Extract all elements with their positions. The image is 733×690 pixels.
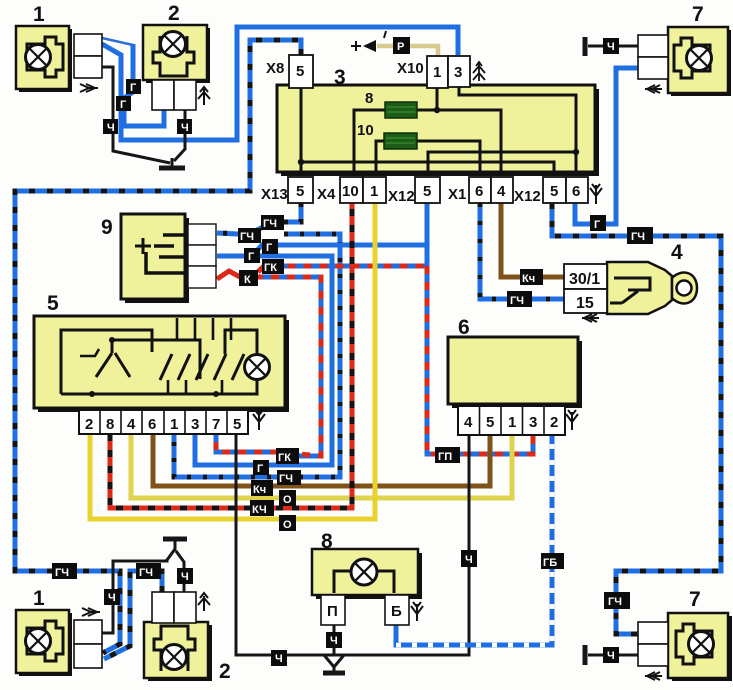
pin row of switch 6 bbox=[458, 406, 565, 435]
svg-text:3: 3 bbox=[529, 414, 537, 431]
pin X8-5 bbox=[289, 55, 313, 88]
tag GP at stalk6 pin3 bbox=[435, 447, 460, 463]
tag Ch on lamp2 ground wire bbox=[177, 119, 192, 134]
svg-text:6: 6 bbox=[458, 316, 470, 339]
wire red-black KC switch5 pin8 to X4-10 bbox=[110, 203, 352, 508]
resistor 8 bbox=[385, 102, 417, 118]
tag G on lamp2 branch bbox=[116, 96, 131, 111]
lamp 2 top: side repeater lamp bbox=[143, 25, 210, 110]
wire GK dashed upper branch to GP riser bbox=[258, 266, 427, 272]
wire black ground G2 to lamp1b bbox=[102, 559, 167, 633]
svg-text:ГЧ: ГЧ bbox=[139, 567, 153, 579]
svg-text:Ч: Ч bbox=[607, 650, 615, 662]
tag Ch lamp2b ground bbox=[177, 568, 193, 584]
tag Ch on stalk6 pin4 wire bbox=[461, 550, 477, 567]
svg-text:X10: X10 bbox=[397, 60, 424, 77]
wire GC dashed X13-5 to flasher9 top pin bbox=[217, 203, 301, 234]
svg-text:Б: Б bbox=[391, 603, 402, 620]
tag O upper at switch5 pin4 bbox=[279, 490, 296, 506]
wire GC dashed X1-6 to ignition4 pin15 bbox=[480, 203, 564, 299]
ground G2 bbox=[163, 539, 187, 560]
svg-text:7: 7 bbox=[212, 416, 220, 433]
tag G 1 near flasher9 bbox=[244, 248, 260, 263]
svg-text:5: 5 bbox=[47, 292, 59, 315]
plus and arrow near P tag bbox=[351, 31, 386, 52]
svg-text:3: 3 bbox=[334, 66, 346, 89]
svg-text:5: 5 bbox=[296, 63, 304, 80]
tag GCh 2 near flasher9 bbox=[261, 215, 284, 230]
svg-text:П: П bbox=[327, 603, 338, 620]
tag Ch on ground bus bbox=[271, 650, 287, 666]
psi symbol at lamp8 bbox=[411, 602, 423, 621]
wire blue G X12-5a to flasher9 middle pin bbox=[217, 203, 427, 256]
svg-text:О: О bbox=[283, 519, 292, 531]
svg-text:Ч: Ч bbox=[275, 653, 283, 665]
wire black lamp1 to ground G1 bbox=[102, 67, 170, 163]
wire blue G switch5 pin3 riser bbox=[195, 256, 332, 465]
svg-text:4: 4 bbox=[671, 241, 683, 264]
tag KCh brown at switch5 pin6 bbox=[251, 480, 273, 496]
svg-text:3: 3 bbox=[454, 64, 462, 81]
svg-text:Р: Р bbox=[397, 41, 404, 53]
hazard switch 5 bbox=[34, 316, 289, 412]
wire black switch5 pin5 to ground bus bbox=[236, 434, 272, 655]
svg-text:Г: Г bbox=[266, 242, 273, 254]
wire GC dashed branch to switch5 pin1 bbox=[174, 234, 340, 477]
ground G5 bbox=[583, 645, 588, 665]
svg-text:2: 2 bbox=[550, 414, 558, 431]
turn-signal stalk switch 6 bbox=[448, 337, 582, 408]
svg-text:Г: Г bbox=[130, 82, 137, 94]
svg-text:9: 9 bbox=[101, 216, 113, 239]
resistor 10 bbox=[384, 133, 417, 149]
chevrons below lamp7 bottom bbox=[645, 672, 662, 680]
wire tan from P tag to X10-1 bbox=[377, 46, 438, 55]
tag KC at switch5 pin8 bbox=[250, 500, 274, 516]
svg-text:4: 4 bbox=[464, 414, 473, 431]
tag Ch lamp1b ground bbox=[104, 589, 120, 605]
svg-text:Г: Г bbox=[248, 251, 255, 263]
psi symbol at switch5 pins bbox=[253, 410, 265, 430]
wire black ground G4 to lamp7 top bbox=[588, 45, 638, 48]
tag Ch on lamp1 ground wire bbox=[103, 119, 118, 134]
svg-text:1: 1 bbox=[370, 183, 378, 200]
tag G at switch5 pin3 bbox=[253, 460, 269, 475]
fir symbol right of X10-3 bbox=[473, 62, 485, 81]
tag GCh 1 near flasher9 bbox=[238, 228, 261, 243]
svg-text:6: 6 bbox=[572, 183, 580, 200]
svg-text:Г: Г bbox=[594, 219, 601, 231]
chevrons near lamp7 top bbox=[645, 85, 662, 93]
svg-text:7: 7 bbox=[689, 588, 701, 611]
svg-text:Ч: Ч bbox=[108, 592, 116, 604]
svg-text:Г: Г bbox=[120, 99, 127, 111]
svg-text:ГЧ: ГЧ bbox=[631, 231, 645, 243]
svg-text:2: 2 bbox=[85, 416, 93, 433]
wire black ground bus to lamp8 and stalk6 pin4 bbox=[286, 435, 469, 655]
svg-text:ГЧ: ГЧ bbox=[279, 473, 293, 485]
tag GCh at ignition 15 bbox=[507, 291, 532, 307]
tag GCh bottom-left edge bbox=[52, 563, 77, 579]
lamp 7 bottom-right bbox=[638, 613, 732, 681]
lamp 1 bottom-left bbox=[16, 610, 102, 676]
tag GB on lamp8 B wire bbox=[541, 553, 564, 569]
tag G on lamp1 wire bbox=[126, 79, 141, 94]
wire black lamp8 P pin to ground G3 bbox=[333, 625, 336, 655]
svg-text:X8: X8 bbox=[266, 60, 284, 77]
svg-text:К: К bbox=[244, 274, 251, 286]
lamp 2 bottom bbox=[144, 592, 212, 681]
svg-text:8: 8 bbox=[365, 90, 373, 107]
wire black ground G5 to lamp7b bbox=[588, 654, 638, 657]
wire GC dashed lamp2b to lamp1b bbox=[104, 571, 162, 659]
svg-text:5: 5 bbox=[423, 183, 431, 200]
tag GK at switch5 pin7 bbox=[276, 448, 299, 464]
ignition switch 4 bbox=[564, 262, 697, 314]
svg-text:4: 4 bbox=[497, 183, 506, 200]
svg-text:ГЧ: ГЧ bbox=[55, 567, 69, 579]
tag Ch top-right lamp7 bbox=[603, 38, 619, 54]
svg-text:5: 5 bbox=[296, 183, 304, 200]
svg-text:10: 10 bbox=[342, 183, 359, 200]
svg-text:1: 1 bbox=[33, 3, 45, 26]
tag Ch below lamp8 P bbox=[326, 632, 342, 648]
wire GC dashed left loop: X8-5 down left edge to bottom-left lamps bbox=[15, 40, 301, 653]
svg-text:Ч: Ч bbox=[330, 635, 338, 647]
wire GC dashed X12-5b right edge loop to lamp7b bbox=[552, 203, 721, 634]
psi symbol at stalk6 pins bbox=[566, 410, 578, 430]
svg-text:8: 8 bbox=[321, 530, 333, 553]
chevrons below ignition 4 bbox=[582, 314, 599, 322]
svg-text:2: 2 bbox=[168, 2, 180, 25]
svg-text:6: 6 bbox=[148, 416, 156, 433]
svg-text:7: 7 bbox=[692, 3, 704, 26]
psi symbol at block3 pins bbox=[590, 184, 602, 204]
svg-text:ГК: ГК bbox=[278, 452, 291, 464]
tag GCh lamp7b wire bbox=[604, 592, 630, 609]
svg-text:5: 5 bbox=[486, 414, 494, 431]
svg-text:2: 2 bbox=[219, 660, 231, 683]
wire black lamp2 to ground G1 bbox=[174, 110, 185, 161]
ground G3 bbox=[323, 655, 345, 673]
bottom pin row of block 3 bbox=[288, 177, 588, 203]
svg-text:Ч: Ч bbox=[607, 41, 615, 53]
wire GP dashed riser to stalk6 pin3 bbox=[427, 245, 533, 454]
svg-text:1: 1 bbox=[33, 587, 45, 610]
svg-text:Г: Г bbox=[257, 463, 264, 475]
tag G near X12-6 bbox=[590, 215, 606, 231]
wire blue branch lamp1 to lamp2 bbox=[124, 44, 164, 126]
wire brown KCH switch5 pin6 to stalk6 pin5 bbox=[153, 434, 490, 486]
tag GK near flasher9 bbox=[262, 259, 284, 274]
svg-text:1: 1 bbox=[508, 414, 516, 431]
wire brown KCH X1-4 to ignition4 pin30/1 bbox=[501, 203, 564, 277]
svg-text:X13: X13 bbox=[261, 186, 288, 203]
fir symbol near lamp2 top bbox=[198, 87, 210, 105]
arrow symbol near lamp1 top bbox=[80, 84, 98, 92]
ground G4 bbox=[583, 37, 588, 56]
svg-text:3: 3 bbox=[191, 416, 199, 433]
svg-text:Кч: Кч bbox=[253, 484, 266, 496]
lamp 7 top-right: rear lamp bbox=[638, 27, 731, 96]
svg-text:X12: X12 bbox=[388, 188, 415, 205]
svg-text:ГК: ГК bbox=[264, 262, 277, 274]
arrow symbol near lamp1 bottom bbox=[82, 608, 100, 616]
tag KCh brown at ignition bbox=[520, 269, 543, 285]
svg-text:ГБ: ГБ bbox=[543, 557, 557, 569]
svg-text:О: О bbox=[283, 494, 292, 506]
svg-text:5: 5 bbox=[550, 183, 558, 200]
svg-text:ГП: ГП bbox=[438, 451, 452, 463]
pin X10-3 bbox=[448, 56, 470, 87]
lamp 1 top-left: turn indicator lamp bbox=[16, 26, 102, 92]
svg-text:Ч: Ч bbox=[181, 122, 189, 134]
svg-text:X1: X1 bbox=[448, 186, 466, 203]
svg-text:ГЧ: ГЧ bbox=[608, 596, 622, 608]
svg-text:ГЧ: ГЧ bbox=[240, 231, 254, 243]
fuse block 3 with resistors bbox=[277, 85, 599, 176]
tag GCh lamp2b wire bbox=[136, 563, 161, 579]
wire blue solid from lamp1 top connector to riser bbox=[102, 27, 458, 140]
wire yellow O switch5 pin4 to stalk6 pin1 bbox=[131, 434, 512, 498]
svg-text:30/1: 30/1 bbox=[569, 271, 600, 288]
svg-text:ГЧ: ГЧ bbox=[510, 295, 524, 307]
ground G1 bbox=[159, 158, 185, 168]
svg-text:1: 1 bbox=[170, 416, 178, 433]
svg-text:5: 5 bbox=[233, 416, 241, 433]
svg-text:15: 15 bbox=[576, 295, 594, 312]
svg-text:X4: X4 bbox=[317, 186, 336, 203]
tag GCh right edge bbox=[627, 227, 653, 244]
tag P near X10 bbox=[393, 37, 410, 54]
svg-text:10: 10 bbox=[357, 122, 374, 139]
flasher relay 9 bbox=[121, 214, 216, 303]
indicator lamp 8 bbox=[312, 549, 422, 625]
wire thin blue from lamp1 connector to branch bbox=[102, 38, 133, 45]
svg-text:КЧ: КЧ bbox=[252, 504, 267, 516]
wire blue G X12-6 to lamp7 top bbox=[575, 68, 638, 224]
svg-text:Ч: Ч bbox=[181, 571, 189, 583]
pin row of switch 5 bbox=[79, 410, 248, 434]
wire black ground G2 to lamp2b bbox=[176, 551, 184, 592]
svg-text:1: 1 bbox=[433, 64, 441, 81]
tag K near flasher9 bbox=[239, 270, 258, 286]
svg-text:Ч: Ч bbox=[465, 554, 473, 566]
tag GCh at switch5 pin1 bbox=[277, 470, 301, 485]
wire GK dashed to switch5 pin7 bbox=[216, 277, 321, 456]
svg-text:ГЧ: ГЧ bbox=[263, 218, 277, 230]
wire yellow O switch5 pin2 to X4-1 bbox=[90, 203, 375, 519]
svg-text:Ч: Ч bbox=[107, 122, 115, 134]
fir symbol near lamp2 bottom bbox=[198, 593, 210, 611]
svg-text:X12: X12 bbox=[514, 188, 541, 205]
svg-text:6: 6 bbox=[475, 183, 483, 200]
svg-text:4: 4 bbox=[127, 416, 136, 433]
wire K red flasher9 bottom pin bbox=[217, 271, 260, 279]
pin X10-1 bbox=[427, 56, 448, 88]
svg-text:Кч: Кч bbox=[522, 273, 535, 285]
wire GB dashed lamp8 B pin to stalk6 pin2 bbox=[396, 435, 552, 645]
svg-text:8: 8 bbox=[106, 416, 114, 433]
tag G 2 near flasher9 bbox=[262, 239, 278, 254]
tag O lower at switch5 pin2 bbox=[279, 515, 296, 531]
tag Ch lamp7b ground bbox=[603, 647, 619, 663]
